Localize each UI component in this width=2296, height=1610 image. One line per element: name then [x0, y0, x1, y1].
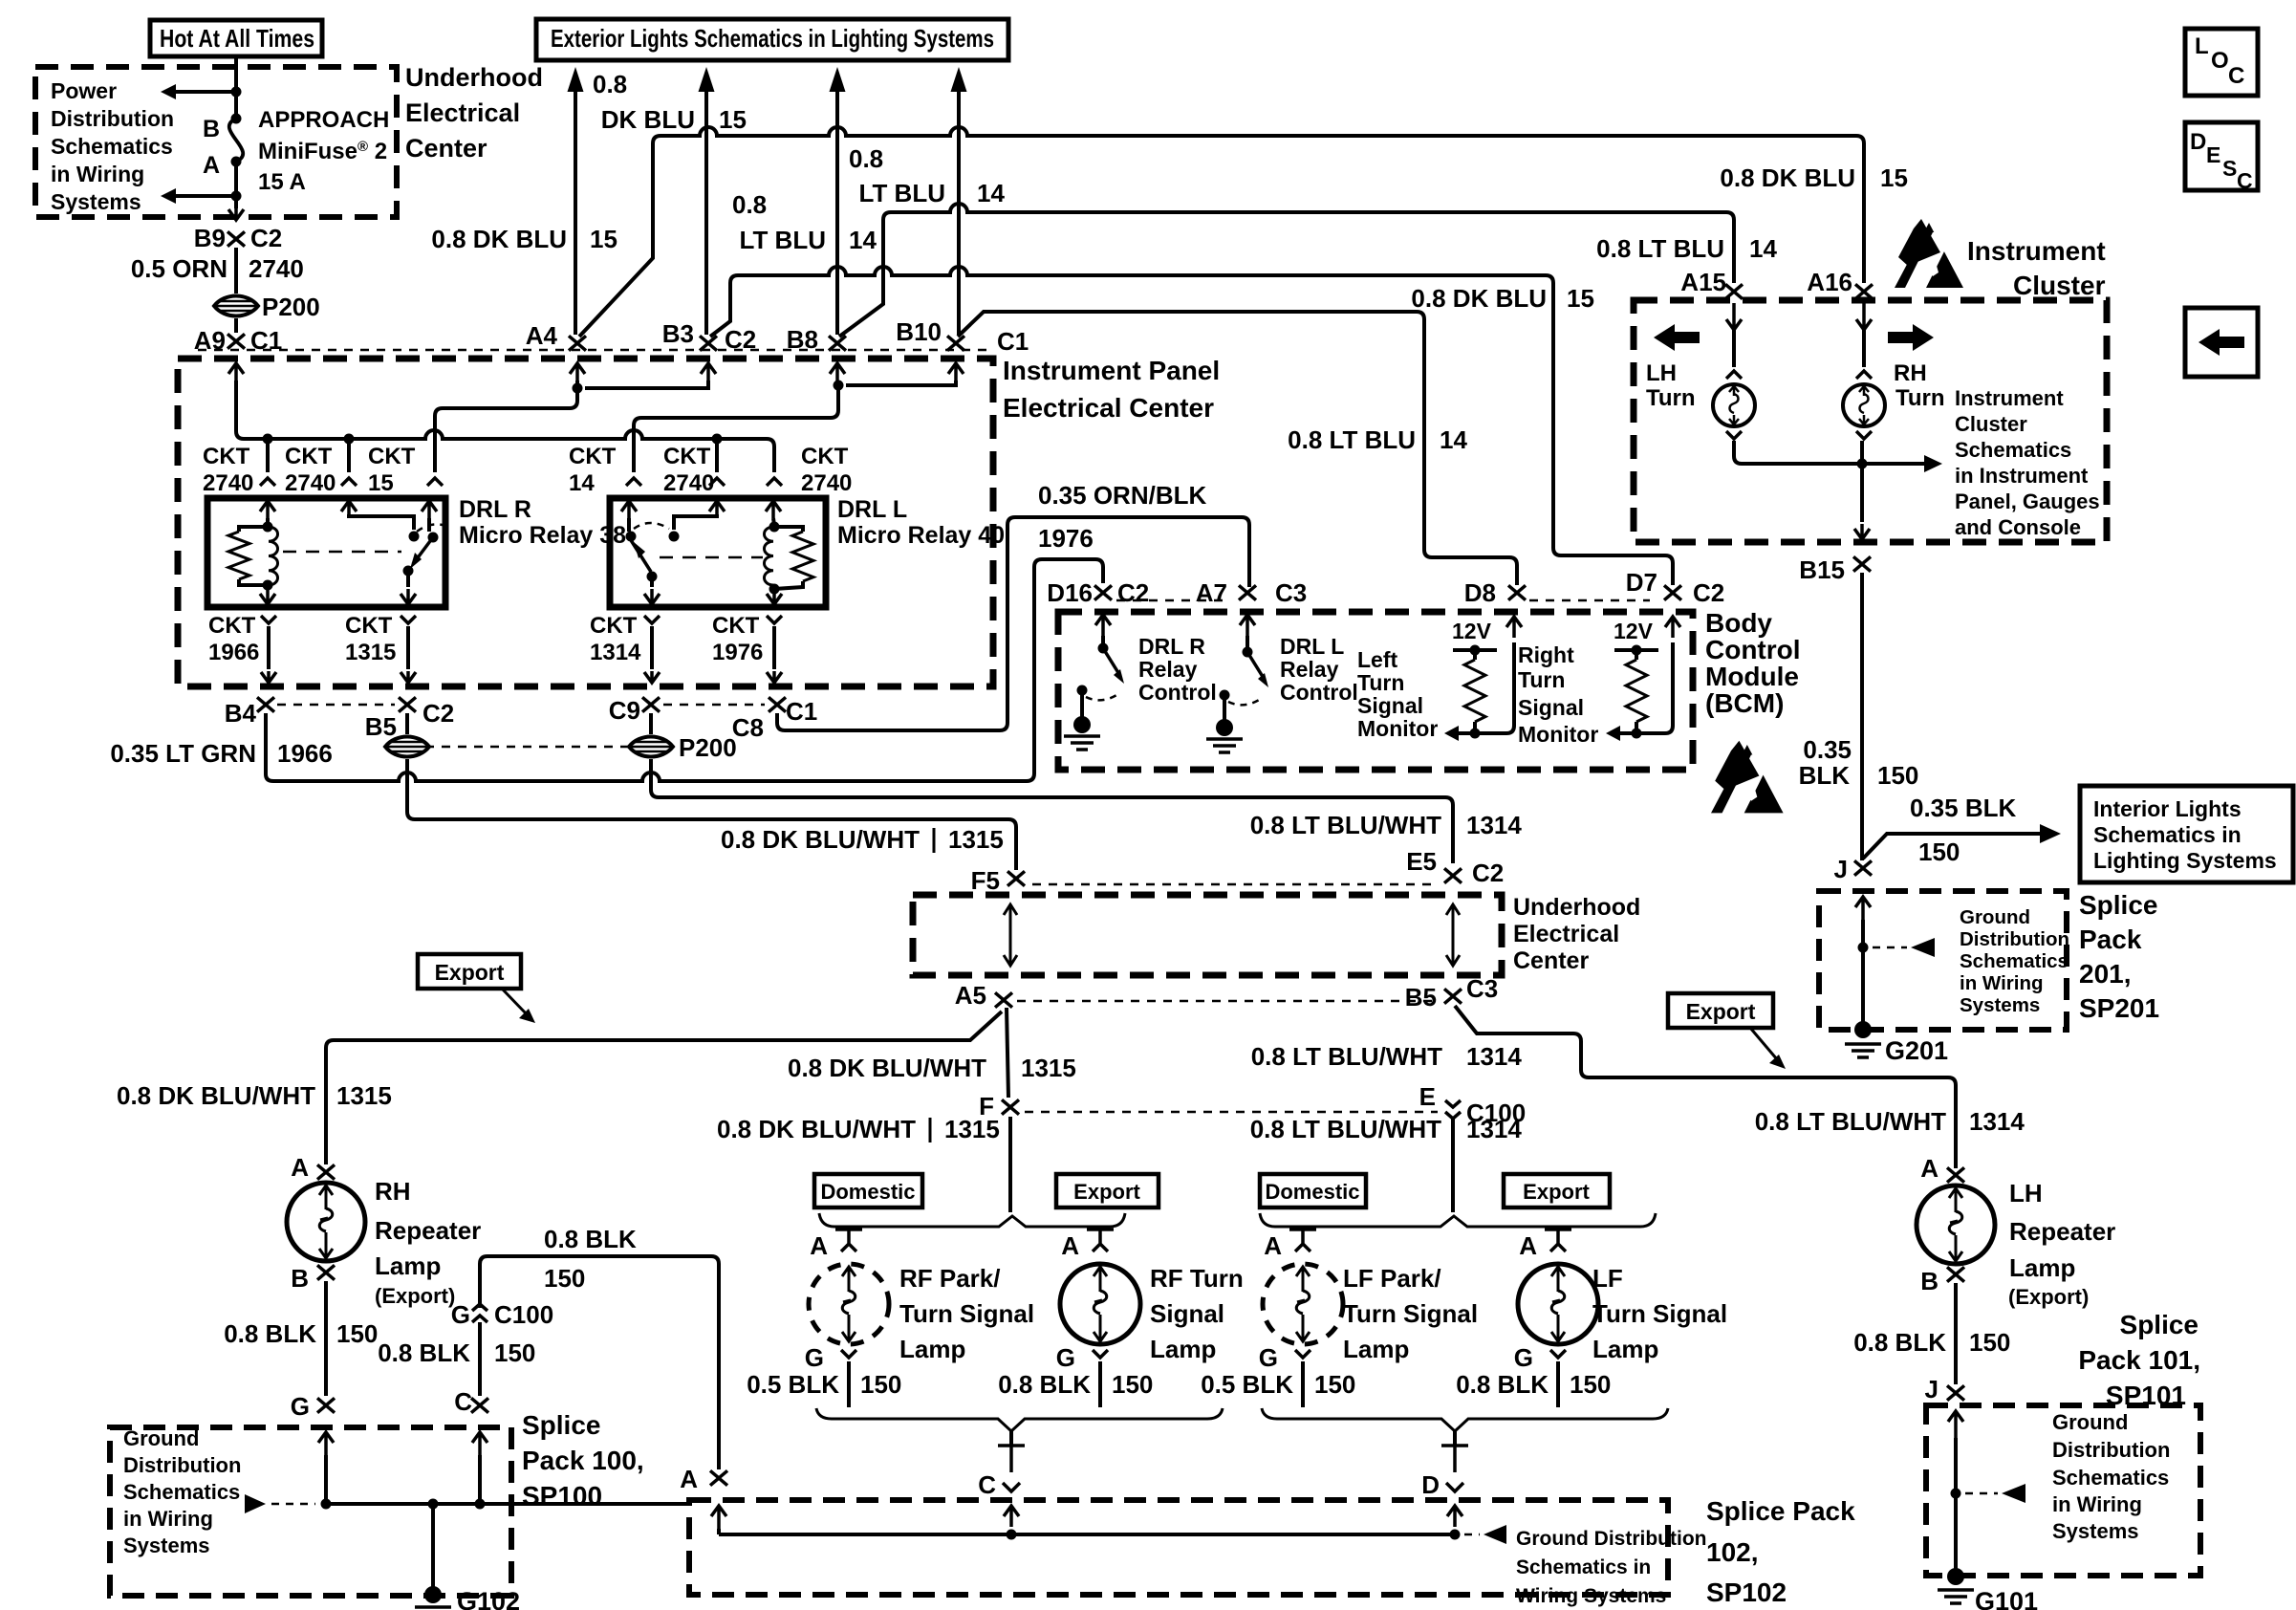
svg-text:C2: C2	[250, 224, 282, 252]
svg-text:Cluster: Cluster	[2013, 271, 2106, 300]
svg-text:in Wiring: in Wiring	[1960, 972, 2044, 994]
svg-text:12V: 12V	[1614, 619, 1654, 643]
svg-text:C1: C1	[997, 327, 1029, 356]
relay 40 actuation dash	[660, 556, 763, 559]
connector pin C (SP100)	[471, 1398, 488, 1412]
label box: Export (4)	[1504, 1174, 1610, 1207]
svg-text:DRL R: DRL R	[459, 496, 531, 523]
svg-text:Instrument Panel: Instrument Panel	[1003, 356, 1220, 385]
wire tap CKT 2740	[715, 439, 719, 472]
pin entry arrow	[948, 363, 964, 382]
svg-text:B3: B3	[662, 319, 694, 348]
svg-text:1315: 1315	[345, 640, 396, 665]
svg-text:Signal: Signal	[1150, 1299, 1224, 1328]
svg-text:150: 150	[1112, 1370, 1153, 1399]
svg-text:Turn Signal: Turn Signal	[1343, 1299, 1478, 1328]
svg-text:A15: A15	[1680, 268, 1726, 296]
svg-text:15: 15	[719, 105, 747, 134]
svg-text:Monitor: Monitor	[1357, 716, 1438, 741]
svg-text:B9: B9	[194, 224, 226, 252]
lamp: LH Repeater Lamp	[1917, 1186, 1995, 1264]
thin connector interface line (IP EC top)	[198, 349, 989, 352]
lamp: RH Turn indicator	[1843, 384, 1885, 426]
wire: B10 branch (0.8 LT BLU 14 to BCM D8)	[958, 312, 1517, 585]
wire to C	[478, 1322, 482, 1396]
connector pins F5 / E5	[1007, 871, 1025, 885]
svg-text:G: G	[291, 1392, 310, 1421]
reference dash callout	[1464, 1534, 1480, 1536]
label box: Export (2)	[1056, 1174, 1159, 1207]
svg-text:1976: 1976	[1038, 524, 1094, 553]
svg-text:Control: Control	[1280, 680, 1358, 705]
wire: 0.8 BLK 150	[1954, 1283, 1958, 1384]
svg-text:Turn: Turn	[1895, 385, 1945, 411]
svg-text:P200: P200	[262, 293, 320, 321]
svg-text:0.8 LT BLU/WHT: 0.8 LT BLU/WHT	[1250, 811, 1441, 839]
connector pin D8	[1508, 585, 1526, 599]
connector pin A (SP102)	[710, 1470, 727, 1485]
svg-text:0.8 LT BLU: 0.8 LT BLU	[1288, 425, 1416, 454]
terminals C and D	[998, 1446, 1025, 1472]
lamp terminal	[1726, 371, 1742, 379]
connector pins A5 / B5(C3)	[995, 992, 1012, 1007]
wire: B4 CKT1966 to BCM D16	[264, 713, 268, 774]
LOC reference box	[2185, 29, 2258, 96]
svg-text:Turn Signal: Turn Signal	[1592, 1299, 1727, 1328]
svg-text:S: S	[2222, 156, 2237, 181]
wire: C1 CKT1976 to BCM A7	[777, 517, 1249, 730]
svg-text:and Console: and Console	[1955, 515, 2081, 539]
svg-text:0.8: 0.8	[849, 144, 883, 173]
component box: Underhood Electrical Center	[913, 895, 1502, 975]
pin entry arrow	[228, 363, 244, 382]
wire: B3 branch to bus3 (0.8 DK BLU 15 to BCM D7)	[710, 275, 738, 337]
svg-text:15 A: 15 A	[258, 169, 306, 195]
svg-text:in Wiring: in Wiring	[51, 162, 144, 186]
export callout arrow	[502, 989, 528, 1015]
wire: 0.5 ORN 2740	[234, 248, 238, 294]
relay 40 switch	[674, 516, 717, 530]
component box: Underhood Electrical Center (Power Distribution)	[35, 67, 397, 217]
svg-text:0.8 BLK: 0.8 BLK	[1456, 1370, 1549, 1399]
svg-text:Schematics: Schematics	[51, 134, 173, 159]
svg-text:LH: LH	[2009, 1179, 2043, 1207]
svg-text:Instrument: Instrument	[1955, 386, 2064, 410]
ground G102	[431, 1504, 435, 1591]
svg-text:15: 15	[590, 225, 617, 253]
relay 38 coil	[266, 518, 270, 525]
svg-text:RH: RH	[375, 1177, 411, 1206]
wire: B8 branch to bus2 (0.8 LT BLU 14 to A15)	[839, 212, 891, 337]
svg-text:0.35 LT GRN: 0.35 LT GRN	[110, 739, 256, 768]
svg-text:C100: C100	[494, 1300, 553, 1329]
svg-text:G201: G201	[1885, 1036, 1948, 1065]
wire tap CKT 2740	[266, 439, 270, 472]
svg-text:0.35 BLK: 0.35 BLK	[1910, 794, 2016, 822]
svg-text:J: J	[1834, 855, 1848, 883]
svg-text:0.8 DK BLU: 0.8 DK BLU	[1411, 284, 1547, 313]
wire: down to A15	[1726, 212, 1734, 283]
svg-text:Systems: Systems	[1960, 994, 2040, 1016]
connector P200 (pass through)	[214, 296, 258, 316]
svg-text:0.8 LT BLU/WHT: 0.8 LT BLU/WHT	[1250, 1115, 1441, 1143]
connector pin B5	[399, 697, 416, 711]
wire arrow 3 to Exterior Lights Schematics	[830, 67, 846, 92]
svg-text:12V: 12V	[1452, 619, 1492, 643]
wire: splice bus SP100	[324, 1455, 328, 1504]
connector pin A7	[1239, 585, 1256, 599]
pin entry arrow	[701, 363, 716, 382]
svg-text:Turn: Turn	[1518, 667, 1565, 692]
pin G entry	[318, 1432, 334, 1457]
svg-text:Monitor: Monitor	[1518, 722, 1598, 747]
wire: C9 CKT1314 to E5	[649, 713, 653, 734]
connector P200 (left half)	[385, 737, 429, 757]
connector pin A16	[1855, 284, 1873, 298]
svg-text:D: D	[2190, 129, 2206, 155]
svg-text:0.8 DK BLU: 0.8 DK BLU	[431, 225, 567, 253]
wire: net 15 to relay 38 switch	[435, 381, 708, 472]
svg-text:A5: A5	[955, 981, 986, 1010]
svg-text:Signal: Signal	[1518, 695, 1584, 720]
connector pin B10	[947, 336, 964, 350]
relay 38 actuation dash	[283, 551, 401, 554]
svg-text:0.8 BLK: 0.8 BLK	[224, 1319, 316, 1348]
relay 38 contact arc	[417, 524, 449, 532]
svg-text:Schematics in: Schematics in	[1516, 1556, 1651, 1578]
wire tap CKT 2740	[347, 439, 351, 472]
component box: Ground Distribution (SP101/G101)	[1926, 1405, 2200, 1576]
svg-text:Lamp: Lamp	[1150, 1335, 1216, 1363]
svg-text:Distribution: Distribution	[123, 1453, 241, 1477]
relay 38 switch	[349, 516, 414, 530]
lamp terminal	[1856, 371, 1872, 379]
svg-text:CKT: CKT	[368, 444, 416, 469]
wire: 1315 to F5	[407, 759, 1016, 870]
wire	[234, 318, 238, 333]
svg-text:Right: Right	[1518, 642, 1574, 667]
connector pin G (RH repeater to SP100)	[317, 1398, 335, 1412]
svg-text:1315: 1315	[1021, 1054, 1076, 1082]
svg-text:P200: P200	[679, 733, 737, 762]
svg-text:D: D	[1421, 1470, 1440, 1499]
component box: Splice Pack 201 SP201	[1819, 891, 2067, 1030]
wire arrow 1 to Exterior Lights Schematics	[568, 67, 584, 92]
svg-text:F5: F5	[971, 866, 1000, 895]
brace: LF lamp group ground	[1262, 1408, 1668, 1431]
svg-text:14: 14	[849, 226, 877, 254]
svg-text:J: J	[1925, 1375, 1939, 1403]
connector pin A4	[569, 336, 586, 350]
wire: group2 ground to D	[1453, 1431, 1457, 1447]
LH turn indicator arrow icon	[1654, 324, 1700, 351]
svg-text:2740: 2740	[203, 470, 253, 496]
svg-text:B4: B4	[225, 699, 257, 728]
svg-text:CKT: CKT	[345, 613, 393, 639]
brace: RF lamp group feed	[819, 1213, 1125, 1227]
wire arrow 2 to Exterior Lights Schematics	[699, 67, 715, 92]
svg-text:0.8 DK BLU: 0.8 DK BLU	[1720, 163, 1855, 192]
svg-text:C2: C2	[422, 699, 454, 728]
svg-text:150: 150	[860, 1370, 901, 1399]
component box: Instrument Cluster	[1634, 300, 2107, 542]
svg-text:150: 150	[1570, 1370, 1611, 1399]
svg-text:C3: C3	[1466, 974, 1498, 1003]
svg-text:Turn: Turn	[1646, 385, 1696, 411]
svg-text:Repeater: Repeater	[375, 1216, 481, 1245]
pin C entry	[472, 1432, 487, 1457]
svg-text:B5: B5	[1405, 983, 1437, 1012]
svg-text:Repeater: Repeater	[2009, 1217, 2115, 1246]
wire: group1 ground to C	[1009, 1431, 1013, 1447]
svg-text:1966: 1966	[277, 739, 333, 768]
connector pin B15	[1853, 556, 1871, 571]
component box: Body Control Module (BCM)	[1058, 612, 1693, 770]
relay 40 resistor	[774, 527, 803, 532]
svg-text:0.5 BLK: 0.5 BLK	[1201, 1370, 1293, 1399]
svg-text:G: G	[805, 1343, 824, 1372]
ground G201	[1854, 1021, 1872, 1038]
svg-text:DRL L: DRL L	[837, 496, 907, 523]
connector A9/C1	[227, 334, 245, 348]
svg-text:Domestic: Domestic	[1265, 1180, 1359, 1204]
svg-text:A: A	[1920, 1154, 1939, 1183]
wires from C100 to lamp groups	[1008, 1117, 1012, 1212]
BCM: DRL L relay control driver	[1240, 615, 1255, 636]
svg-text:RF Turn: RF Turn	[1150, 1264, 1244, 1293]
svg-text:Splice: Splice	[2079, 890, 2157, 920]
wire: A16 into cluster RH Turn lamp	[1856, 303, 1872, 330]
label box: Domestic (3)	[1260, 1174, 1366, 1207]
svg-text:0.8: 0.8	[593, 70, 627, 98]
svg-text:150: 150	[1969, 1328, 2010, 1357]
wire: branch to Interior Lights Schematics	[1863, 834, 2046, 859]
svg-text:SP100: SP100	[522, 1481, 602, 1511]
svg-text:0.8 LT BLU/WHT: 0.8 LT BLU/WHT	[1755, 1107, 1946, 1136]
relay 40 coil	[773, 518, 774, 525]
svg-text:1315: 1315	[944, 1115, 1000, 1143]
svg-text:1315: 1315	[948, 825, 1004, 854]
connector pin G (C100)	[472, 1304, 487, 1322]
component box: Ground Distribution (SP100)	[110, 1427, 511, 1596]
svg-text:BLK: BLK	[1799, 761, 1851, 790]
relay 38 coil out	[260, 587, 275, 604]
wire: A4 branch to bus1 (0.8 DK BLU 15 to A16)	[579, 136, 661, 337]
connector pin J (SP201)	[1854, 860, 1872, 875]
wire arrow 4 to Exterior Lights Schematics	[951, 67, 967, 92]
svg-text:C: C	[2237, 168, 2253, 193]
wire bus 0.8 LT BLU 14	[891, 204, 1726, 212]
reference dash callout	[245, 1494, 266, 1513]
svg-text:Ground: Ground	[1960, 906, 2030, 928]
lamp terminal	[1856, 431, 1872, 439]
thin connector line	[1017, 1000, 1440, 1003]
relay 38 lever	[413, 537, 433, 564]
svg-text:0.8 DK BLU/WHT: 0.8 DK BLU/WHT	[721, 825, 920, 854]
svg-text:0.5 ORN: 0.5 ORN	[131, 254, 227, 283]
svg-text:Export: Export	[1523, 1180, 1590, 1204]
brace: LF lamp group feed	[1260, 1213, 1656, 1227]
connector pin D16	[1094, 585, 1112, 599]
svg-text:0.8 LT BLU: 0.8 LT BLU	[1596, 234, 1724, 263]
svg-text:Turn Signal: Turn Signal	[899, 1299, 1034, 1328]
relay: DRL R Micro Relay 38	[207, 498, 445, 607]
svg-text:Interior Lights: Interior Lights	[2093, 796, 2242, 821]
svg-text:L: L	[2195, 33, 2209, 59]
svg-text:B5: B5	[365, 712, 397, 741]
svg-text:0.8: 0.8	[732, 190, 767, 219]
svg-text:Electrical Center: Electrical Center	[1003, 393, 1214, 423]
svg-text:C: C	[978, 1470, 996, 1499]
thin connector line	[1025, 1111, 1438, 1114]
left-arrow reference box	[2185, 308, 2258, 377]
svg-text:E5: E5	[1406, 847, 1437, 876]
svg-text:1314: 1314	[1466, 811, 1522, 839]
connector P200 (right half)	[629, 737, 673, 757]
svg-text:CKT: CKT	[663, 444, 711, 469]
connector pins F / E (C100)	[1002, 1099, 1019, 1114]
svg-text:1314: 1314	[1466, 1115, 1522, 1143]
svg-text:DK BLU: DK BLU	[601, 105, 695, 134]
svg-text:C2: C2	[1693, 578, 1724, 607]
connector pin D7	[1664, 585, 1681, 599]
svg-text:E: E	[2206, 142, 2220, 167]
svg-text:LF Park/: LF Park/	[1343, 1264, 1441, 1293]
svg-text:14: 14	[977, 179, 1005, 207]
svg-text:0.8 BLK: 0.8 BLK	[378, 1338, 470, 1367]
svg-text:Export: Export	[1686, 999, 1756, 1024]
svg-text:(Export): (Export)	[2008, 1285, 2089, 1309]
svg-text:Body: Body	[1705, 608, 1772, 638]
svg-text:Control: Control	[1705, 635, 1801, 664]
svg-text:G: G	[1056, 1343, 1075, 1372]
svg-text:Systems: Systems	[2052, 1519, 2139, 1543]
RH turn indicator arrow icon	[1888, 324, 1934, 351]
svg-text:Schematics in: Schematics in	[2093, 822, 2242, 847]
connector pin B8	[829, 336, 846, 350]
svg-text:Electrical: Electrical	[405, 98, 520, 127]
ESD symbol near Instrument Cluster	[1895, 219, 1963, 294]
svg-text:Micro Relay 40: Micro Relay 40	[837, 522, 1005, 549]
reference dash	[1873, 946, 1907, 949]
relay 40 lever	[631, 540, 651, 572]
svg-text:Systems: Systems	[51, 189, 141, 214]
svg-text:Signal: Signal	[1357, 693, 1423, 718]
svg-text:150: 150	[544, 1264, 585, 1293]
connector pin C9	[642, 697, 660, 711]
wire: splice bus SP102	[719, 1533, 1455, 1536]
svg-text:150: 150	[1314, 1370, 1355, 1399]
lamp: LF Park/ Turn Signal Lamp	[1289, 1229, 1316, 1251]
svg-text:Splice: Splice	[2120, 1310, 2199, 1339]
svg-text:C: C	[2228, 63, 2244, 89]
wire: CKT 2740 rail	[244, 430, 767, 439]
wire: net 14 to relay 40 switch	[634, 381, 956, 472]
wire: fuse output exits box	[228, 208, 244, 220]
brace: RF lamp group ground	[816, 1408, 1223, 1431]
label box: Domestic (1)	[814, 1174, 922, 1207]
wire: cluster lamp returns join	[1734, 441, 1862, 464]
svg-text:in Wiring: in Wiring	[123, 1507, 213, 1531]
svg-text:Schematics: Schematics	[1960, 950, 2069, 972]
svg-text:B10: B10	[896, 317, 942, 346]
svg-text:2740: 2740	[285, 470, 336, 496]
svg-text:G: G	[1514, 1343, 1533, 1372]
svg-text:14: 14	[1440, 425, 1467, 454]
wire: down to A16	[1856, 136, 1864, 283]
svg-text:Pack: Pack	[2079, 925, 2142, 954]
svg-text:LT BLU: LT BLU	[740, 226, 827, 254]
label box: Export (right)	[1668, 993, 1773, 1028]
connector pin A15	[1725, 284, 1743, 298]
wire: 0.8 LT BLU/WHT 1314 export branch	[1455, 1006, 1956, 1168]
svg-text:0.8 BLK: 0.8 BLK	[998, 1370, 1091, 1399]
svg-text:LT BLU: LT BLU	[859, 179, 946, 207]
wire: A5 to F and export branch	[1007, 1008, 1008, 1098]
svg-text:0.35: 0.35	[1803, 735, 1852, 764]
svg-text:C9: C9	[609, 696, 640, 725]
fuse APPROACH MiniFuse 2 15A	[229, 119, 243, 162]
svg-text:Systems: Systems	[123, 1534, 210, 1557]
svg-text:Lamp: Lamp	[2009, 1253, 2075, 1282]
thin connector interface line (BCM top)	[1116, 599, 1224, 602]
junction to other power circuits	[231, 87, 242, 98]
svg-text:Pack 100,: Pack 100,	[522, 1446, 644, 1475]
connector pin C1	[769, 697, 786, 711]
svg-text:DRL L: DRL L	[1280, 634, 1344, 659]
svg-text:CKT: CKT	[801, 444, 849, 469]
svg-text:Lamp: Lamp	[1343, 1335, 1409, 1363]
svg-text:D16: D16	[1047, 578, 1093, 607]
svg-text:Export: Export	[1073, 1180, 1140, 1204]
BCM: DRL R relay control driver	[1095, 615, 1111, 636]
svg-text:D8: D8	[1464, 578, 1496, 607]
svg-text:B: B	[1920, 1267, 1939, 1295]
svg-text:102,: 102,	[1706, 1537, 1759, 1567]
svg-text:CKT: CKT	[712, 613, 760, 639]
svg-text:Turn: Turn	[1357, 670, 1404, 695]
svg-text:1976: 1976	[712, 640, 763, 665]
svg-text:CKT: CKT	[569, 444, 617, 469]
wire: battery feed from Hot At All Times	[234, 56, 238, 119]
svg-text:2740: 2740	[801, 470, 852, 496]
svg-text:Electrical: Electrical	[1513, 921, 1619, 947]
svg-text:C1: C1	[786, 697, 817, 726]
svg-text:C: C	[454, 1387, 472, 1416]
svg-text:Underhood: Underhood	[1513, 894, 1640, 921]
svg-text:1314: 1314	[590, 640, 641, 665]
svg-text:Export: Export	[435, 960, 505, 985]
svg-text:Underhood: Underhood	[405, 63, 543, 92]
svg-text:Power: Power	[51, 78, 117, 103]
svg-text:Micro Relay 38: Micro Relay 38	[459, 522, 626, 549]
svg-text:RF Park/: RF Park/	[899, 1264, 1001, 1293]
relay 40 contact arc	[634, 523, 669, 529]
component box: Instrument Panel Electrical Center	[178, 359, 993, 686]
svg-text:Instrument: Instrument	[1967, 236, 2106, 266]
svg-text:Center: Center	[405, 134, 487, 163]
thin connector line	[1032, 883, 1439, 886]
svg-text:Left: Left	[1357, 647, 1398, 672]
svg-text:Cluster: Cluster	[1955, 412, 2027, 436]
svg-text:0.8 BLK: 0.8 BLK	[544, 1225, 637, 1253]
svg-text:0.35 ORN/BLK: 0.35 ORN/BLK	[1038, 481, 1206, 510]
svg-text:A16: A16	[1807, 268, 1852, 296]
svg-text:A4: A4	[526, 321, 558, 350]
svg-text:150: 150	[1918, 838, 1960, 866]
svg-text:(BCM): (BCM)	[1705, 688, 1784, 718]
svg-text:Pack 101,: Pack 101,	[2078, 1345, 2200, 1375]
